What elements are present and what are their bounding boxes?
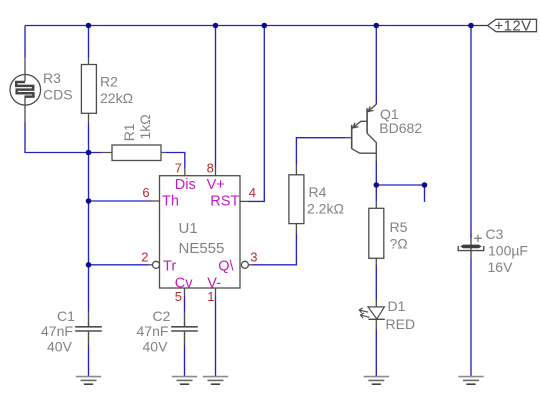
ground under C2	[172, 376, 197, 378]
svg-text:1kΩ: 1kΩ	[137, 114, 153, 139]
wire rail to R2 top	[88, 26, 90, 59]
wire node to Th pin 6	[89, 200, 152, 202]
svg-text:RED: RED	[386, 316, 416, 332]
wire R1 right to Dis pin 7	[166, 153, 185, 168]
svg-text:R1: R1	[121, 123, 137, 141]
junction Q1 collector node	[374, 182, 380, 188]
transistor Q1 collector paths	[352, 133, 377, 161]
node +12V supply tag	[488, 19, 537, 31]
diode D1 emission arrow 2	[361, 313, 370, 318]
diode D1 emission arrow 1	[359, 308, 368, 313]
U1 pin 3 stub	[249, 264, 253, 266]
svg-text:CDS: CDS	[43, 87, 73, 103]
svg-text:C1: C1	[57, 308, 75, 324]
capacitor C3 top plate	[460, 245, 481, 249]
U1 pin 5 stub	[184, 288, 186, 297]
resistor R4 body	[289, 175, 304, 224]
svg-text:Dis: Dis	[175, 177, 196, 193]
U1 pin 6 stub	[152, 200, 160, 202]
resistor R3 photoresistor pins	[24, 58, 26, 123]
capacitor C2 plates	[171, 327, 198, 331]
ground under D1	[364, 376, 389, 378]
wire R4 top to Q1 base	[296, 138, 346, 166]
wire left drop from rail to R3	[24, 26, 26, 58]
U1 pin 3 inversion bubble	[241, 261, 248, 268]
ground under C3	[458, 376, 483, 378]
wire Q1 collector to node	[375, 162, 377, 186]
wire node to R5 top	[375, 185, 377, 202]
resistor R3 inner wire	[24, 75, 26, 82]
U1 pin 2 inversion bubble	[153, 261, 160, 268]
resistor R3 circle	[10, 75, 41, 106]
wire top +12V rail	[25, 25, 488, 27]
svg-text:V-: V-	[207, 275, 221, 291]
svg-text:3: 3	[250, 250, 257, 265]
svg-text:R5: R5	[390, 219, 408, 235]
junction node Tr row	[86, 262, 92, 268]
junction rail at pin8 column	[213, 23, 219, 29]
wire rail to V+ pin 8	[215, 26, 217, 168]
svg-text:R3: R3	[43, 70, 61, 86]
wire V- pin 1 to ground	[215, 297, 217, 377]
diode D1 cathode bar	[368, 318, 384, 320]
ground under pin 1	[203, 376, 228, 378]
svg-text:D1: D1	[388, 298, 406, 314]
capacitor C3 plus sign	[474, 235, 481, 242]
resistor R5 body	[369, 208, 384, 258]
svg-text:8: 8	[207, 161, 214, 176]
svg-text:40V: 40V	[47, 339, 73, 355]
svg-text:40V: 40V	[143, 339, 169, 355]
resistor R2 body	[81, 65, 96, 114]
transistor Q1 base pin	[346, 137, 351, 139]
resistor R2 pins	[88, 58, 90, 123]
capacitor C3 pins	[470, 233, 472, 260]
svg-text:47nF: 47nF	[137, 323, 169, 339]
capacitor C3 bottom plate	[458, 246, 484, 251]
svg-text:2: 2	[141, 250, 148, 265]
junction rail at RST column	[262, 23, 268, 29]
svg-text:R2: R2	[100, 74, 118, 90]
svg-text:47nF: 47nF	[41, 323, 73, 339]
svg-text:Q\: Q\	[218, 258, 234, 274]
wire R2 bottom down left column to C1	[88, 123, 90, 312]
wire D1 cathode to ground	[375, 330, 377, 376]
wire Q pin 3 to R4 bottom	[253, 233, 297, 264]
junction rail at C3 column	[468, 23, 474, 29]
capacitor C2 pins	[184, 312, 186, 345]
svg-text:R4: R4	[309, 184, 327, 200]
resistor R5 pins	[375, 202, 377, 265]
junction node Th row	[86, 198, 92, 204]
svg-text:16V: 16V	[488, 259, 514, 275]
svg-text:?Ω: ?Ω	[390, 236, 408, 252]
transistor Q1 right base bar	[366, 108, 368, 133]
svg-text:RST: RST	[210, 194, 239, 210]
U1 pin 2 stub	[149, 264, 153, 266]
svg-text:+12V: +12V	[495, 18, 532, 35]
diode D1 pins	[375, 300, 377, 330]
op-amp U1 NE555 body	[160, 176, 241, 288]
diode D1 triangle	[368, 307, 384, 319]
svg-text:22kΩ: 22kΩ	[100, 90, 133, 106]
wire Cv pin 5 to C2	[184, 297, 186, 313]
transistor Q1 inner emitter line	[352, 121, 367, 128]
wire C1 bottom to ground	[88, 345, 90, 376]
wire C3 bottom to ground	[470, 259, 472, 376]
transistor Q1 left base bar	[351, 125, 353, 149]
svg-text:4: 4	[249, 185, 256, 200]
wire right stub down	[424, 185, 426, 202]
wire node to Tr pin 2	[89, 264, 149, 266]
svg-text:6: 6	[142, 185, 149, 200]
svg-text:2.2kΩ: 2.2kΩ	[307, 201, 344, 217]
resistor R1 pins	[101, 152, 166, 154]
wire collector node to right stub	[376, 184, 424, 186]
junction rail at Q1 emitter column	[374, 23, 380, 29]
wire RST pin 4 up to rail	[249, 26, 265, 202]
svg-text:Th: Th	[162, 194, 179, 210]
svg-text:100µF: 100µF	[488, 243, 528, 259]
junction node R2 bottom / R1	[86, 150, 92, 156]
svg-text:7: 7	[175, 161, 182, 176]
svg-text:C2: C2	[153, 308, 171, 324]
svg-text:Cv: Cv	[175, 275, 193, 291]
wire rail to Q1 emitter	[375, 26, 377, 105]
wire rail to C3 top	[470, 26, 472, 239]
ground under C1	[76, 376, 101, 378]
junction right stub node	[422, 182, 428, 188]
resistor R4 pins	[295, 165, 297, 233]
U1 pin 8 stub	[215, 168, 217, 176]
U1 pin 1 stub	[215, 288, 217, 297]
svg-text:V+: V+	[207, 177, 225, 193]
transistor Q1 outer emitter arrowhead	[368, 106, 373, 111]
svg-text:Tr: Tr	[163, 258, 176, 274]
svg-text:BD682: BD682	[379, 120, 422, 136]
wire R3 bottom to node row	[25, 122, 101, 153]
wire R5 bottom to D1	[375, 265, 377, 300]
svg-text:NE555: NE555	[179, 240, 225, 257]
U1 pin 7 stub	[184, 168, 186, 176]
capacitor C1 pins	[88, 312, 90, 345]
transistor Q1 inner emitter arrowhead	[353, 123, 358, 128]
svg-text:U1: U1	[179, 220, 198, 237]
U1 pin 4 stub	[240, 200, 249, 202]
svg-text:C3: C3	[486, 226, 504, 242]
resistor R3 meander element	[16, 82, 33, 97]
capacitor C1 plates	[75, 327, 102, 331]
wire C2 bottom to ground	[184, 345, 186, 376]
resistor R1 body	[112, 145, 161, 161]
transistor Q1 outer emitter line	[368, 104, 377, 112]
junction rail at R2 column	[86, 23, 92, 29]
